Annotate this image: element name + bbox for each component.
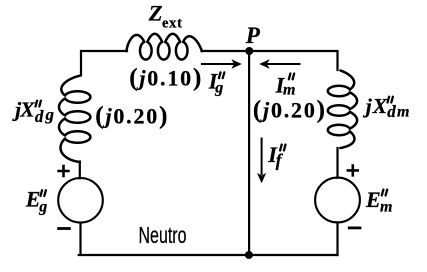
svg-text:g: g: [214, 80, 223, 97]
source E_g: [58, 178, 103, 223]
polarity + of E_m: [347, 164, 359, 176]
inductor Z_ext: [127, 34, 203, 60]
svg-text:ext: ext: [162, 15, 183, 31]
source E_m: [315, 178, 360, 223]
junction dot at node P: [245, 47, 253, 55]
svg-text:Z: Z: [148, 1, 163, 26]
svg-text:(j0.20): (j0.20): [253, 96, 327, 123]
current arrow I''_g (into node P, pointing right): [201, 59, 242, 68]
svg-text:(j0.20): (j0.20): [95, 103, 169, 130]
svg-text:P: P: [245, 23, 261, 48]
current arrow I''_f (fault current, pointing down): [257, 138, 266, 184]
junction dot on neutral rail: [245, 251, 253, 259]
svg-text:m: m: [283, 82, 295, 99]
svg-text:(j0.10): (j0.10): [129, 65, 203, 92]
polarity - of E_m: [348, 226, 362, 229]
svg-text:g: g: [38, 199, 47, 216]
svg-text:d: d: [387, 102, 396, 121]
inductor jX_dg: [59, 76, 90, 163]
wire top-right from Z_ext through node P to right corner: [202, 51, 338, 70]
svg-text:X: X: [372, 94, 388, 118]
current arrow I''_m (into node P, pointing left): [259, 59, 300, 68]
wire neutral rail (Neutro): [79, 254, 338, 256]
svg-text:E: E: [25, 187, 41, 212]
wire E_m to neutral rail: [336, 222, 338, 255]
svg-text:m: m: [380, 198, 392, 215]
inductor jX_dm: [328, 71, 357, 149]
svg-text:Neutro: Neutro: [139, 222, 187, 248]
svg-text:X: X: [19, 98, 35, 122]
wire left coil to E_g: [79, 162, 81, 179]
svg-text:E: E: [365, 187, 381, 212]
wire right coil to E_m: [336, 148, 338, 178]
svg-text:m: m: [397, 104, 409, 121]
svg-text:g: g: [45, 105, 55, 124]
wire middle from node P down to neutral rail: [248, 51, 250, 255]
wire E_g to neutral rail: [79, 223, 81, 254]
polarity - of E_g: [57, 227, 71, 230]
wire top-left from corner to Z_ext: [81, 51, 127, 75]
svg-text:d: d: [35, 107, 44, 126]
polarity + of E_g: [57, 165, 69, 177]
